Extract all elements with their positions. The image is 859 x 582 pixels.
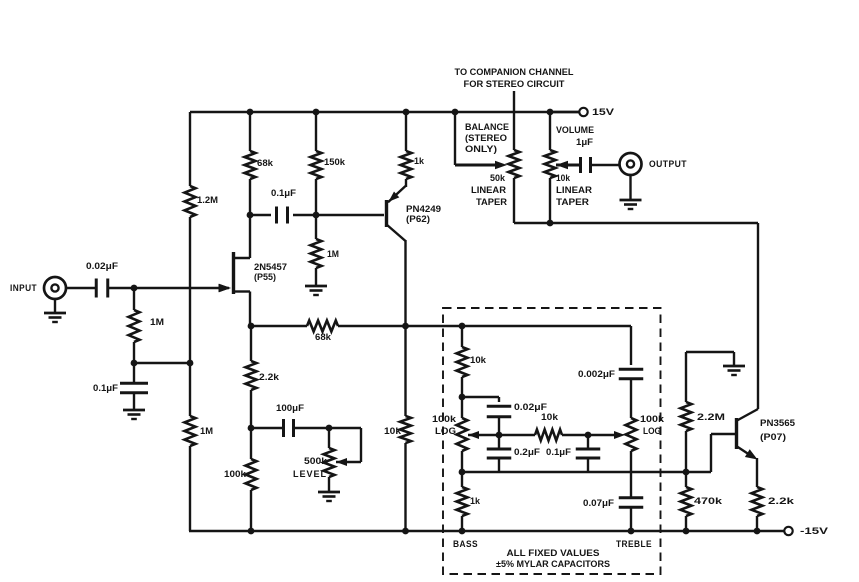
resistor R 68k drain load [245, 112, 274, 215]
svg-text:TREBLE: TREBLE [616, 539, 652, 550]
svg-text:10k: 10k [470, 355, 487, 366]
node gate/1M junction [131, 285, 138, 292]
svg-text:0.1μF: 0.1μF [271, 188, 296, 199]
wire FET gate arrow [219, 284, 231, 292]
svg-text:1.2M: 1.2M [197, 195, 218, 206]
node junction dots on top rail [247, 109, 554, 116]
ground input jack [44, 299, 66, 323]
potentiometer R 50k balance [465, 122, 520, 223]
wire 2.2M top branch [686, 352, 734, 402]
ground output jack [620, 175, 642, 210]
svg-text:0.1μF: 0.1μF [546, 447, 571, 458]
svg-text:1k: 1k [414, 156, 425, 167]
svg-text:100k: 100k [224, 469, 247, 480]
svg-text:(P55): (P55) [254, 272, 276, 283]
svg-text:100k: 100k [640, 414, 665, 425]
node bass wiper junction [496, 432, 503, 439]
node volume pot bottom junction [547, 220, 554, 227]
wire PN3565 base lead [711, 434, 736, 472]
wire PN4249 emitter column [404, 240, 406, 326]
node bass 10k junction [459, 394, 466, 401]
svg-text:15V: 15V [592, 107, 615, 118]
resistor R 1k collector load [401, 112, 425, 187]
connector J2 output jack [620, 153, 688, 175]
wire companion channel stub [513, 91, 515, 150]
wire left column (1.2M feedback branch) [189, 112, 191, 531]
svg-text:68k: 68k [315, 332, 332, 343]
svg-text:BALANCE: BALANCE [465, 122, 509, 133]
svg-text:PN3565: PN3565 [760, 418, 796, 429]
svg-text:0.07μF: 0.07μF [583, 498, 614, 509]
label TO COMPANION CHANNEL [455, 67, 574, 90]
transistor Q3 PN3565 [737, 409, 796, 460]
svg-text:150k: 150k [324, 157, 346, 168]
node 1M bottom junction [131, 360, 194, 367]
wire treble wiper [588, 431, 625, 439]
svg-text:OUTPUT: OUTPUT [649, 159, 687, 170]
svg-text:(STEREO: (STEREO [465, 133, 507, 144]
wire bottom of balance/volume pots rail [514, 222, 758, 224]
wire bass wiper [468, 431, 499, 439]
resistor R 10k emitter [384, 326, 411, 531]
node 10k bottom rail junction [402, 528, 409, 535]
wire +15V top supply rail [190, 111, 579, 113]
node drain/0.1uF junction [247, 212, 254, 219]
node emitter/68k junction [402, 323, 409, 330]
resistor R 1M input [129, 288, 165, 363]
ground below 0.1uF [123, 410, 145, 419]
transistor Q2 PN4249 PNP [387, 186, 442, 241]
node 470k bottom rail junction [683, 528, 690, 535]
svg-text:0.2μF: 0.2μF [514, 447, 540, 458]
svg-text:1M: 1M [150, 317, 164, 328]
capacitor C 0.002uF treble top [578, 326, 643, 418]
wire PN3565 emitter column [756, 458, 758, 487]
ground above PN3565 bias [723, 352, 745, 375]
node 2.2k/100uF junction [248, 425, 255, 432]
node tone output / 470k junction [683, 469, 690, 476]
capacitor C 0.07uF treble bottom [583, 498, 643, 531]
svg-text:10k: 10k [556, 173, 571, 184]
ground below 1M [305, 286, 327, 295]
potentiometer R 500k LEVEL [293, 428, 361, 491]
node 100uF/500k junction [326, 425, 333, 432]
capacitor C 1uF output coupling [581, 157, 620, 173]
label BASS [453, 539, 478, 550]
wire right feedback column to PN3565 collector [757, 223, 759, 409]
node treble bottom rail junction [628, 528, 635, 535]
label ALL FIXED VALUES [496, 548, 610, 570]
node 150k/base junction [313, 212, 320, 219]
resistor R 68k feedback [251, 321, 462, 344]
resistor R 2.2k source [246, 326, 280, 428]
capacitor C 0.2uF bass bottom [487, 435, 540, 472]
resistor R 1M base bias [311, 215, 340, 285]
resistor R 10k bass upper [457, 326, 487, 397]
capacitor C 0.02uF bass top [462, 397, 547, 435]
node 1k bottom rail junction [459, 528, 466, 535]
wire tone network output line [462, 471, 711, 473]
svg-text:100μF: 100μF [276, 403, 304, 414]
svg-text:TAPER: TAPER [556, 197, 589, 208]
resistor R 2.2k emitter [752, 487, 795, 531]
svg-text:2.2M: 2.2M [697, 412, 725, 423]
resistor R 1k bass lower [457, 472, 481, 531]
capacitor C 0.1uF interstage [250, 188, 316, 224]
svg-text:BASS: BASS [453, 539, 478, 550]
resistor R 100k source lower [224, 428, 257, 531]
capacitor C 0.1uF treble wiper [546, 435, 600, 472]
svg-text:(P62): (P62) [406, 214, 430, 225]
potentiometer R 100k LOG treble [626, 414, 665, 497]
svg-text:500k: 500k [304, 456, 328, 467]
svg-text:470k: 470k [694, 496, 723, 507]
svg-text:10k: 10k [541, 412, 559, 423]
capacitor C 0.1uF bypass to ground [93, 363, 148, 409]
svg-text:0.1μF: 0.1μF [93, 383, 118, 394]
svg-text:68k: 68k [257, 158, 274, 169]
wire PN4249 base lead [316, 214, 384, 216]
connector J1 input jack [44, 277, 66, 299]
ground below 500k [318, 492, 340, 501]
svg-text:LEVEL: LEVEL [293, 469, 327, 480]
svg-text:TAPER: TAPER [476, 197, 507, 208]
label INPUT [10, 283, 37, 294]
node bass network top junction [459, 323, 466, 330]
svg-text:ALL FIXED VALUES: ALL FIXED VALUES [507, 548, 600, 559]
resistor R 2.2M bias [681, 402, 726, 472]
wire volume wiper to output cap [556, 161, 580, 169]
svg-text:(P07): (P07) [760, 432, 786, 443]
svg-text:VOLUME: VOLUME [556, 125, 594, 136]
potentiometer R 100k LOG bass [432, 397, 468, 472]
capacitor C 0.02uF input coupling [66, 261, 230, 298]
resistor R 10k between wipers [499, 412, 588, 441]
svg-text:2.2k: 2.2k [768, 496, 795, 507]
svg-text:1M: 1M [200, 426, 213, 437]
node 2.2k bottom rail junction [754, 528, 761, 535]
node bass bottom junction [459, 469, 466, 476]
svg-text:1M: 1M [327, 249, 339, 260]
svg-text:-15V: -15V [800, 526, 829, 537]
svg-text:1k: 1k [470, 496, 481, 507]
svg-text:FOR STEREO CIRCUIT: FOR STEREO CIRCUIT [464, 79, 565, 90]
capacitor C 100uF level coupling [251, 403, 329, 437]
wire balance wiper [455, 112, 507, 169]
resistor R 1M lower [185, 416, 214, 446]
svg-text:10k: 10k [384, 426, 402, 437]
svg-text:1μF: 1μF [576, 137, 593, 148]
svg-text:LINEAR: LINEAR [556, 185, 592, 196]
terminal +15V [550, 107, 615, 118]
svg-text:INPUT: INPUT [10, 283, 37, 294]
svg-text:0.002μF: 0.002μF [578, 369, 615, 380]
transistor Q1 2N5457 JFET [219, 252, 288, 326]
svg-text:LOG: LOG [435, 426, 456, 437]
svg-text:2.2k: 2.2k [259, 372, 280, 383]
svg-text:LOG: LOG [643, 426, 661, 437]
svg-text:±5% MYLAR CAPACITORS: ±5% MYLAR CAPACITORS [496, 559, 610, 570]
svg-text:50k: 50k [490, 173, 506, 184]
label TREBLE [616, 539, 652, 550]
potentiometer R 10k volume [545, 112, 595, 223]
wire FET drain lead [233, 215, 250, 258]
resistor R 1.2M [185, 186, 219, 217]
wire bottom ground/-15V rail [189, 530, 784, 532]
terminal -15V [784, 526, 829, 537]
svg-text:TO COMPANION CHANNEL: TO COMPANION CHANNEL [455, 67, 574, 78]
resistor R 470k [681, 472, 723, 531]
svg-text:ONLY): ONLY) [465, 144, 497, 155]
svg-text:LINEAR: LINEAR [471, 185, 506, 196]
svg-text:100k: 100k [432, 414, 457, 425]
node treble wiper junction [585, 432, 592, 439]
dashed box tone control enclosure [443, 308, 661, 574]
svg-text:0.02μF: 0.02μF [86, 261, 118, 272]
resistor R 150k [311, 112, 346, 215]
node source junction dot [248, 323, 255, 330]
node 100k bottom rail junction [248, 528, 255, 535]
wire tone network top rail to treble [462, 325, 631, 327]
